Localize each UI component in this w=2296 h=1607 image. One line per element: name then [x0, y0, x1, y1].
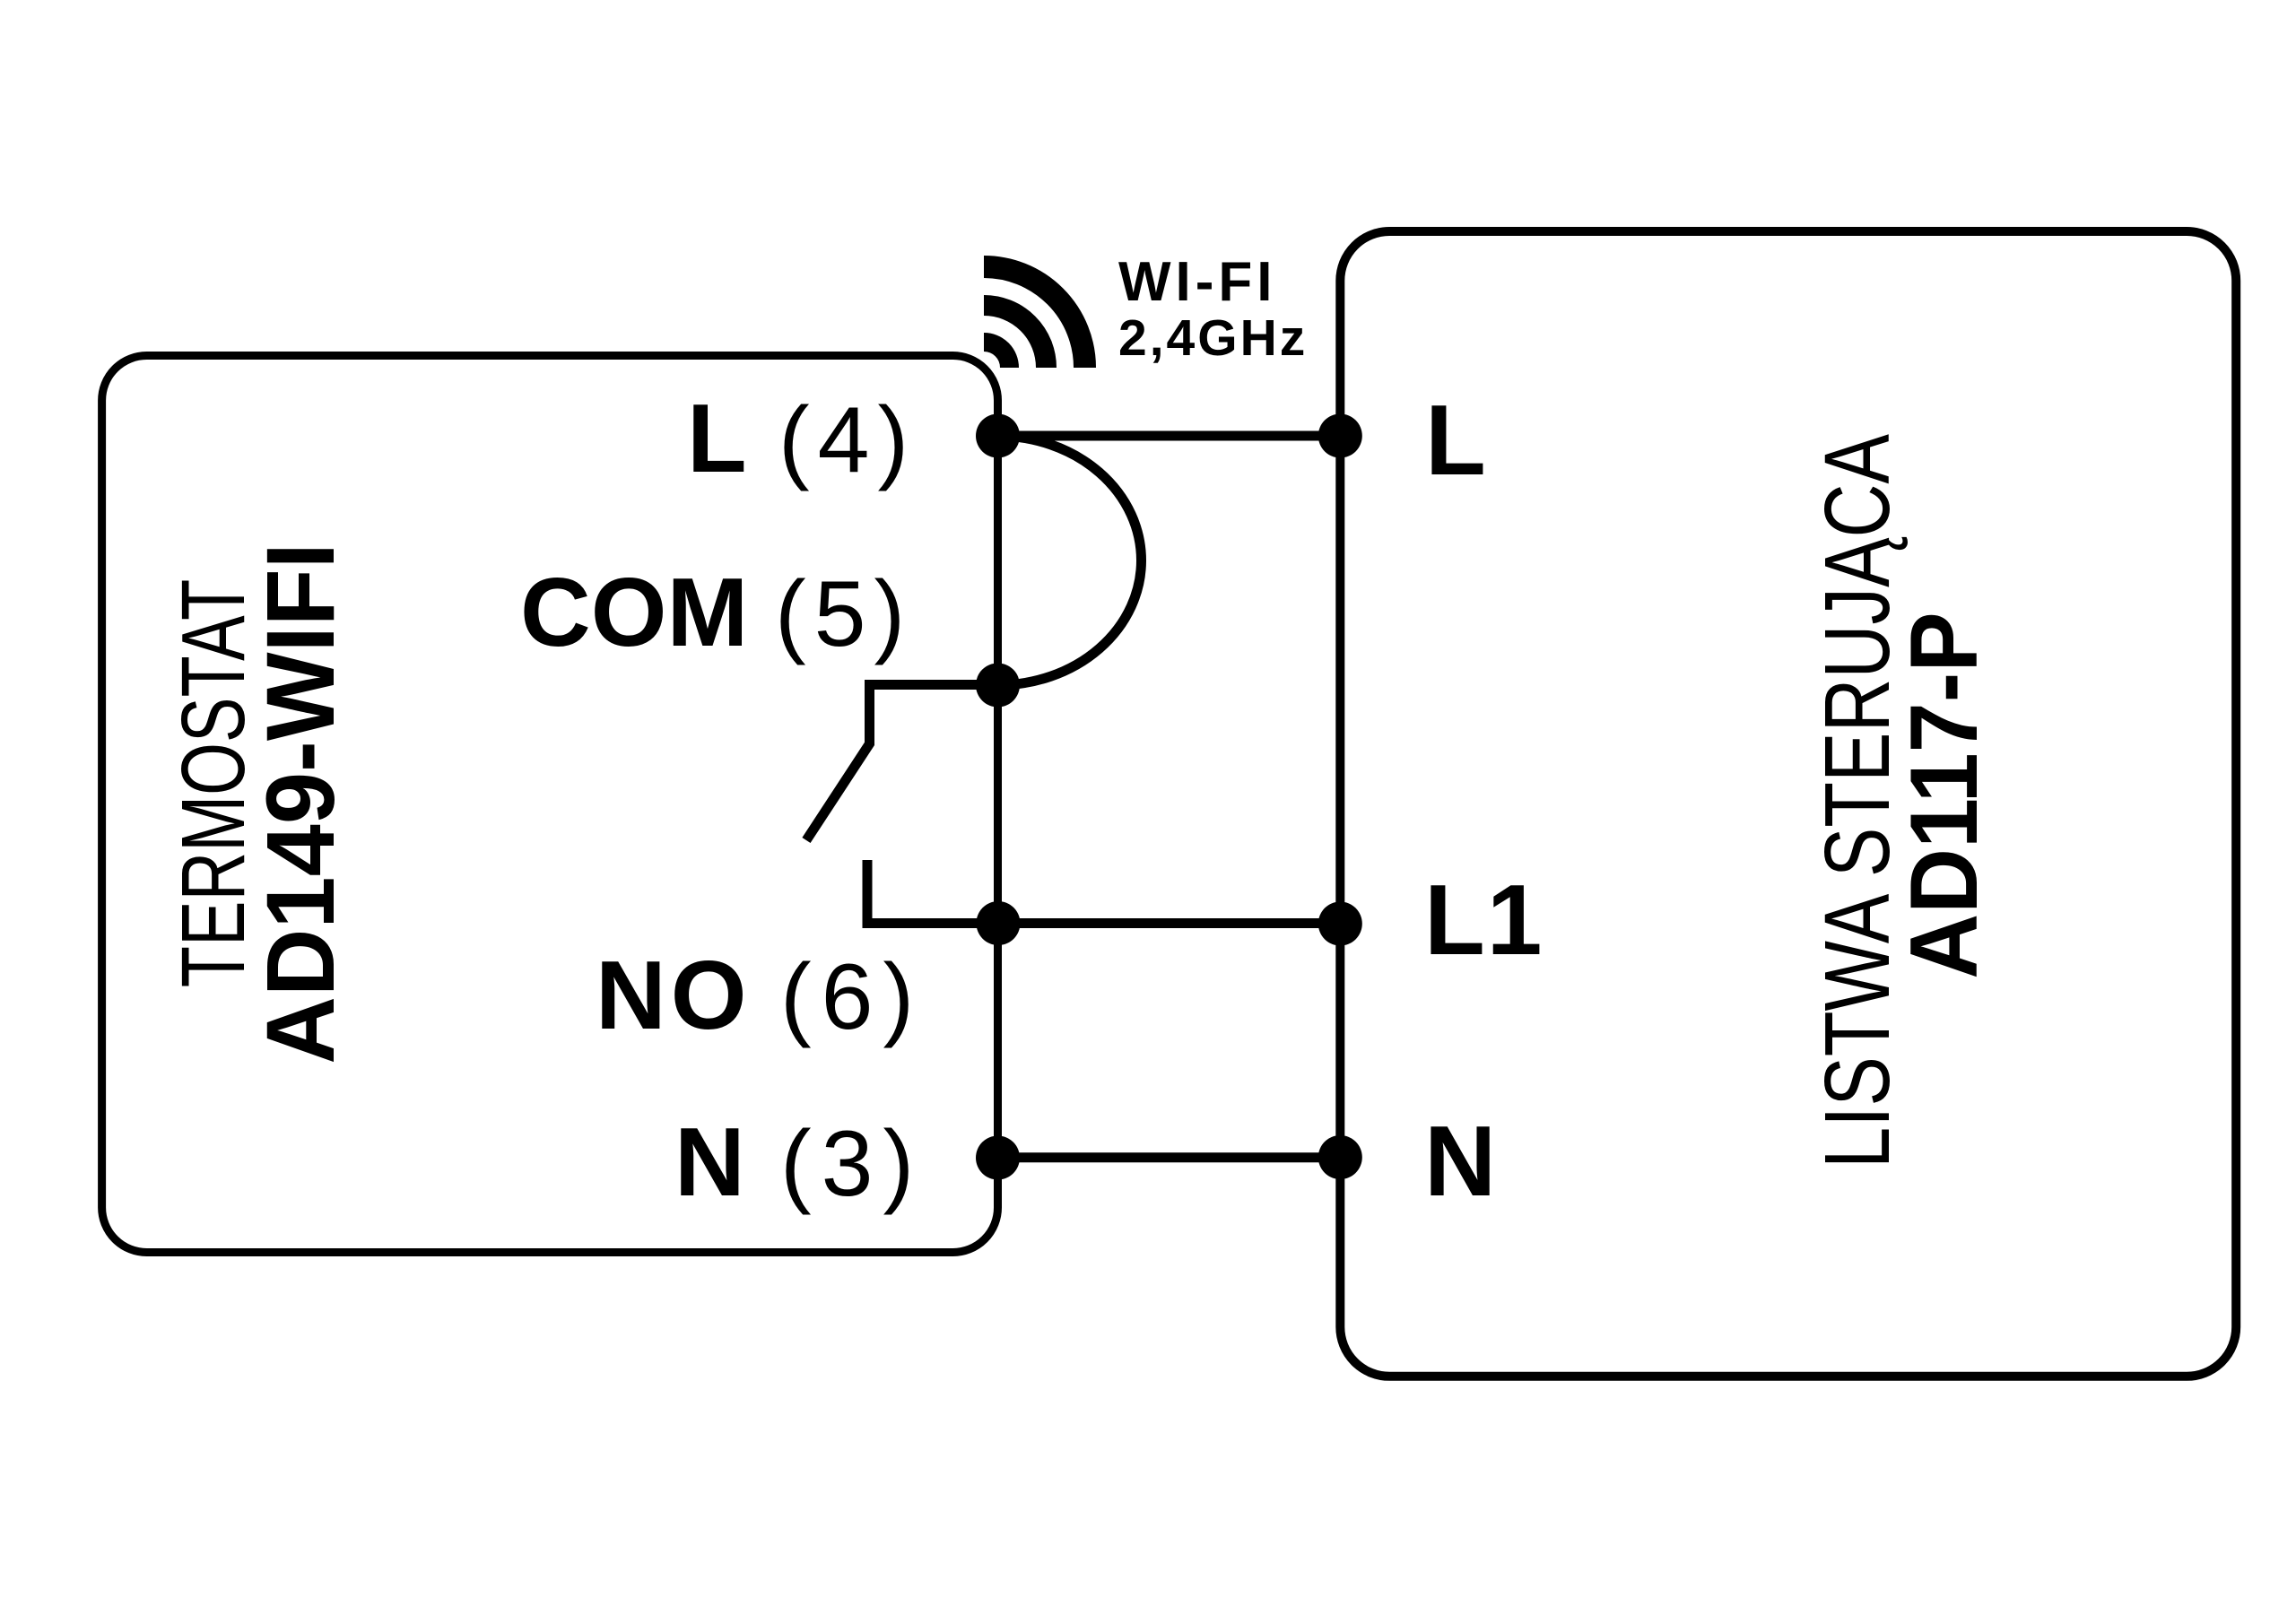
svg-text:COM: COM: [520, 558, 748, 667]
svg-text:L: L: [1425, 385, 1486, 496]
junction dot terminal COM(5): [976, 664, 1020, 708]
svg-text:(5): (5): [775, 562, 913, 666]
switch S1 NO stub wire and wire NO(6) to L1: [867, 860, 1340, 924]
junction dot terminal L: [1318, 414, 1362, 458]
svg-text:AD149-WIFI: AD149-WIFI: [247, 543, 355, 1064]
svg-text:WI-FI: WI-FI: [1118, 251, 1277, 313]
junction dot terminal NO(6): [977, 901, 1021, 945]
svg-text:L1: L1: [1424, 864, 1544, 976]
svg-text:(4): (4): [778, 388, 917, 492]
thermostat box U1 AD149-WIFI: [102, 356, 998, 1253]
svg-text:NO: NO: [596, 941, 752, 1050]
svg-text:L: L: [687, 384, 747, 493]
wire L(4) to L: [998, 431, 1341, 441]
wifi icon antenna arcs: [984, 267, 1085, 369]
controller box U2 AD117-P: [1340, 231, 2236, 1377]
junction dot terminal N(3): [976, 1136, 1020, 1180]
junction dot terminal L1: [1318, 902, 1362, 946]
svg-text:2,4GHz: 2,4GHz: [1118, 309, 1308, 367]
svg-text:N: N: [1424, 1106, 1496, 1217]
svg-text:AD117-P: AD117-P: [1891, 612, 1997, 978]
switch S1 COM stub wire and open blade: [806, 685, 998, 841]
svg-text:(3): (3): [780, 1112, 924, 1216]
svg-text:N: N: [674, 1108, 745, 1217]
svg-text:(6): (6): [780, 945, 924, 1049]
jumper arc wire L(4) to COM(5): [998, 436, 1142, 685]
wire N(3) to N: [998, 1152, 1341, 1162]
junction dot terminal N: [1318, 1135, 1362, 1179]
junction dot terminal L(4): [976, 414, 1020, 458]
